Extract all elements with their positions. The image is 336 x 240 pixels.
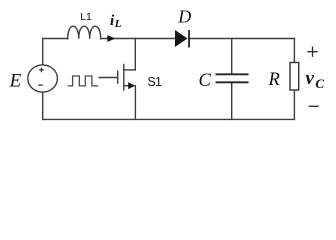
svg-text:L: L (114, 18, 122, 30)
svg-text:R: R (268, 70, 280, 90)
svg-text:E: E (9, 71, 22, 92)
svg-text:C: C (315, 76, 324, 91)
svg-text:D: D (177, 7, 191, 27)
svg-text:L1: L1 (80, 11, 92, 23)
svg-text:C: C (199, 71, 212, 91)
svg-text:v: v (306, 68, 315, 89)
svg-text:S1: S1 (148, 75, 163, 89)
